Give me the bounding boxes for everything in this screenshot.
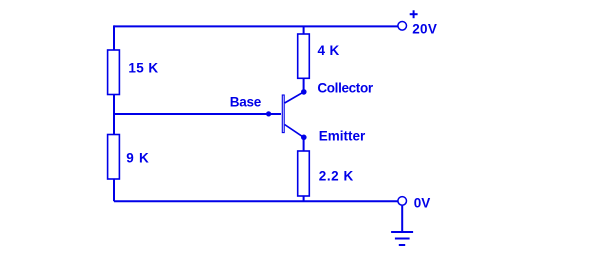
svg-text:Base: Base <box>230 95 262 110</box>
svg-text:2.2 K: 2.2 K <box>319 169 354 184</box>
svg-text:Collector: Collector <box>317 81 373 96</box>
svg-text:20V: 20V <box>412 21 437 36</box>
svg-text:0V: 0V <box>414 195 431 210</box>
svg-text:15 K: 15 K <box>128 61 158 76</box>
svg-text:Emitter: Emitter <box>319 129 366 144</box>
svg-text:4 K: 4 K <box>318 43 340 58</box>
svg-text:9 K: 9 K <box>126 151 149 166</box>
